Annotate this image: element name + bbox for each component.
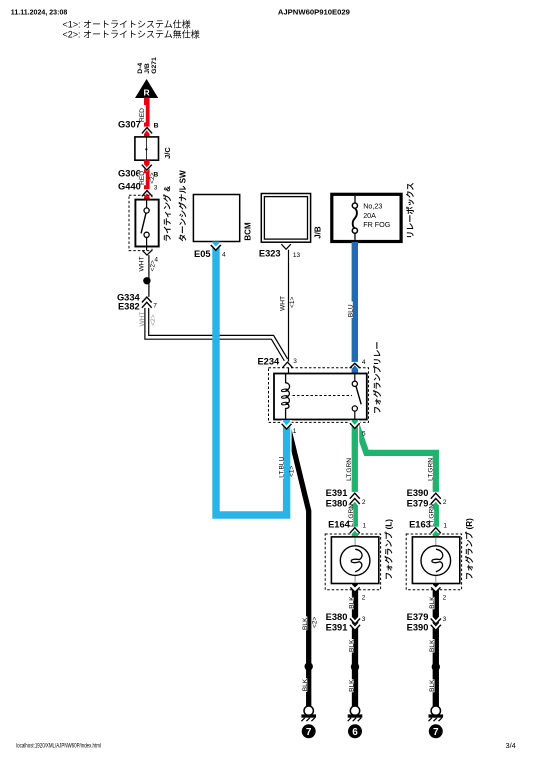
FOOTER: [16, 741, 516, 750]
wire BLK label L2: [347, 639, 355, 653]
node D-4 J/B G271 label: [137, 57, 158, 74]
wire LT.GRN label right lower: [427, 504, 436, 528]
relay coil: [286, 374, 290, 420]
svg-text:<2>: <2>: [149, 172, 156, 184]
svg-text:1: 1: [362, 523, 366, 530]
svg-text:1: 1: [293, 428, 297, 435]
connector G440: [118, 182, 158, 201]
svg-text:E390: E390: [407, 623, 429, 633]
svg-text:フォグランプ (L): フォグランプ (L): [383, 519, 393, 580]
svg-text:フォグランプリレー: フォグランプリレー: [372, 341, 382, 414]
svg-text:E380: E380: [326, 498, 348, 508]
power arrow R (to J/B G271): [135, 79, 158, 98]
svg-text:BLK: BLK: [348, 596, 355, 609]
svg-text:ターンシグナル SW: ターンシグナル SW: [177, 170, 187, 242]
svg-text:J/B: J/B: [313, 226, 322, 239]
relay contact: [354, 374, 356, 381]
svg-text:2: 2: [362, 594, 366, 601]
fog lamp R pin 1 wire stub: [433, 531, 439, 539]
fuse No.23 20A FR FOG: [352, 196, 390, 240]
J/B box: [261, 194, 322, 243]
LAMPS: [301, 518, 474, 706]
wire BLK label right lower: [428, 679, 436, 692]
fog lamp relay E234 dashed boundary: [269, 368, 369, 423]
svg-text:3: 3: [443, 616, 447, 623]
connector G306: [118, 164, 158, 179]
svg-text:LT.BLU: LT.BLU: [279, 456, 286, 477]
svg-text:20A: 20A: [363, 211, 376, 220]
ground symbol 6 (middle): [348, 706, 363, 738]
bulb R: [421, 546, 451, 576]
svg-text:AJPNW60P910E029: AJPNW60P910E029: [278, 8, 350, 17]
svg-text:BLK: BLK: [302, 617, 309, 630]
connector E379 E390 pin 3: [407, 612, 447, 633]
connector E164 pin 1: [328, 519, 366, 533]
LEFTCOL: [117, 57, 286, 360]
switch pin 4: [142, 247, 158, 264]
svg-text:7: 7: [433, 727, 439, 738]
svg-text:<1>: オートライトシステム仕様: <1>: オートライトシステム仕様: [63, 19, 191, 30]
svg-text:B: B: [154, 122, 159, 129]
junction connector J/C: [135, 137, 172, 160]
svg-text:G307: G307: [118, 120, 141, 130]
svg-text:5: 5: [362, 431, 366, 438]
junction dot right: [432, 663, 440, 671]
svg-text:フォグランプ (R): フォグランプ (R): [464, 518, 474, 580]
svg-text:リレーボックス: リレーボックス: [405, 182, 415, 238]
wire BLK label middle lower: [347, 679, 355, 692]
connector E391 E380 (left): [326, 488, 366, 509]
svg-text:E164: E164: [328, 519, 351, 529]
RELAY: [257, 341, 382, 422]
svg-text:WHT: WHT: [139, 256, 146, 271]
J/B connector E323 pin 13: [259, 244, 301, 259]
wire BLK label left lower: [301, 678, 309, 692]
svg-text:WHT: WHT: [280, 296, 287, 311]
svg-text:<2>: <2>: [312, 616, 319, 628]
svg-text:No,23: No,23: [363, 201, 382, 210]
svg-text:BLK: BLK: [429, 679, 436, 692]
svg-text:BLK: BLK: [348, 639, 355, 652]
svg-text:<1>: <1>: [289, 296, 296, 308]
svg-text:localhost:1920/XML/AJPNW60P/in: localhost:1920/XML/AJPNW60P/index.html: [16, 743, 101, 750]
svg-text:3: 3: [154, 184, 158, 191]
svg-text:R: R: [144, 88, 150, 98]
svg-text:4: 4: [222, 252, 226, 259]
svg-text:FR FOG: FR FOG: [363, 220, 391, 229]
wire LT.GRN label left upper: [345, 458, 354, 482]
wire LT.GRN label right upper: [426, 458, 435, 482]
wire LT.GRN stub to E164: [352, 502, 358, 527]
relay pin 3 wire stub: [288, 368, 290, 375]
svg-text:3: 3: [362, 616, 366, 623]
svg-text:4: 4: [362, 359, 366, 366]
wire BLK (lamp L to ground): [352, 584, 358, 707]
lamp R pin 2 chevron: [431, 585, 447, 601]
wire BLU (fuse box to relay pin 4): [352, 242, 358, 362]
svg-text:G306: G306: [118, 169, 141, 179]
svg-text:2: 2: [362, 499, 366, 506]
BCM box: [193, 195, 252, 242]
svg-text:J/C: J/C: [163, 147, 172, 159]
wire LT.BLU halo: [282, 420, 292, 516]
svg-text:BLK: BLK: [302, 678, 309, 691]
wire LT.BLU label: [277, 456, 286, 478]
svg-text:E390: E390: [407, 488, 429, 498]
svg-text:<1>: <1>: [288, 465, 295, 477]
wire (switch to G334): [148, 255, 150, 297]
svg-text:G271: G271: [151, 57, 158, 74]
wire LT.GRN label left lower: [346, 504, 355, 528]
wire BLK label L1: [347, 596, 355, 610]
lighting and turn signal switch body: [135, 170, 187, 246]
fog lamp R body: [412, 518, 474, 584]
MIDBOXES: [193, 182, 415, 361]
wire LT.BLU (BCM E05 to relay pin 1): [216, 242, 287, 516]
connector E163 pin 1: [409, 519, 447, 533]
svg-text:E234: E234: [257, 356, 280, 366]
svg-text:2: 2: [443, 499, 447, 506]
relay box (fuse box): [332, 182, 415, 241]
relay pin 1 chevron: [282, 422, 292, 429]
lighting and turn signal switch (dashed boundary): [129, 195, 152, 250]
svg-text:BLK: BLK: [429, 639, 436, 652]
svg-text:3/4: 3/4: [506, 741, 516, 750]
wire WHT outlined (G334 to relay pin 3): [147, 308, 286, 360]
wire LT.GRN stub to E163: [433, 502, 439, 527]
svg-text:E391: E391: [326, 488, 348, 498]
relay pin 5 chevron: [350, 422, 360, 429]
connector G334 E382: [117, 292, 157, 311]
svg-text:6: 6: [352, 727, 358, 738]
wire WHT (E323 to relay pin 3): [288, 250, 290, 362]
svg-text:7: 7: [306, 727, 312, 738]
GROUNDS: [301, 662, 443, 738]
svg-text:E05: E05: [194, 249, 211, 259]
HEADER: [11, 8, 350, 40]
wire BLU label: [346, 302, 355, 319]
ground symbol 7 (right): [429, 706, 444, 738]
wire RED segment (arrow to G307): [144, 98, 150, 127]
svg-text:ライティング &: ライティング &: [162, 186, 172, 242]
connector G307: [118, 120, 159, 138]
svg-text:E379: E379: [407, 498, 429, 508]
relay pin 4 wire stub BLU: [352, 365, 358, 374]
junction dot left: [305, 662, 313, 670]
wire BLK label on relay ground wire: [301, 616, 309, 630]
svg-text:3: 3: [293, 358, 297, 365]
wire label RED: [139, 171, 147, 186]
BCM connector E05 pin 4: [194, 249, 226, 259]
relay pin 3 chevron: [283, 362, 293, 368]
wire BLK label R1: [428, 596, 436, 610]
svg-text:BLU: BLU: [347, 304, 354, 317]
connector E380 E391 pin 3: [326, 612, 366, 633]
svg-text:LT.GRN: LT.GRN: [346, 458, 353, 481]
svg-text:13: 13: [293, 252, 301, 259]
svg-text:G440: G440: [118, 182, 141, 192]
wire LT.GRN (relay pin 5 to left lamp): [352, 420, 358, 492]
svg-text:BLK: BLK: [348, 679, 355, 692]
relay mechanical link (dashed): [293, 395, 353, 397]
svg-text:E163: E163: [409, 519, 431, 529]
junction dot: [143, 277, 150, 284]
svg-text:2: 2: [443, 594, 447, 601]
wire RED segment (J/C to G440): [144, 160, 150, 189]
fog lamp L dashed boundary: [325, 534, 380, 590]
fog lamp L pin 1 wire stub: [352, 531, 358, 539]
svg-text:<2>: <2>: [150, 314, 157, 326]
svg-text:E391: E391: [326, 623, 348, 633]
ground symbol 7 (left): [301, 706, 316, 738]
junction dot middle: [351, 663, 359, 671]
connector E390 E379 (right): [407, 488, 447, 509]
svg-text:<2>: <2>: [149, 260, 156, 272]
svg-text:E379: E379: [407, 612, 429, 622]
wire BLK label R2: [428, 639, 436, 653]
svg-text:BLK: BLK: [429, 596, 436, 609]
svg-text:E323: E323: [259, 249, 281, 259]
wire BLK (relay pin 2 to ground, diagonal): [289, 429, 309, 706]
svg-text:<2>: オートライトシステム無仕様: <2>: オートライトシステム無仕様: [63, 28, 200, 39]
svg-text:1: 1: [443, 523, 447, 530]
lamp L pin 2 chevron: [350, 585, 366, 601]
bulb L: [340, 546, 370, 576]
fog lamp R dashed boundary: [406, 534, 461, 590]
wire LT.GRN main halo: [350, 420, 359, 478]
fog lamp L body: [331, 519, 393, 584]
svg-text:LT.GRN: LT.GRN: [428, 458, 435, 481]
BCM E05 pin chevron: [211, 244, 221, 251]
wire BLK (lamp R to ground): [433, 584, 439, 707]
svg-text:E382: E382: [118, 301, 140, 311]
wire label RED: [139, 105, 147, 123]
svg-text:E380: E380: [326, 612, 348, 622]
svg-text:BCM: BCM: [243, 222, 252, 241]
svg-text:11.11.2024, 23:08: 11.11.2024, 23:08: [11, 10, 68, 17]
relay E234 body: [274, 374, 367, 420]
svg-text:7: 7: [153, 303, 157, 310]
relay pin 4 chevron: [350, 363, 360, 368]
wire LT.GRN branch (relay pin 5 to right lamp): [355, 421, 436, 492]
